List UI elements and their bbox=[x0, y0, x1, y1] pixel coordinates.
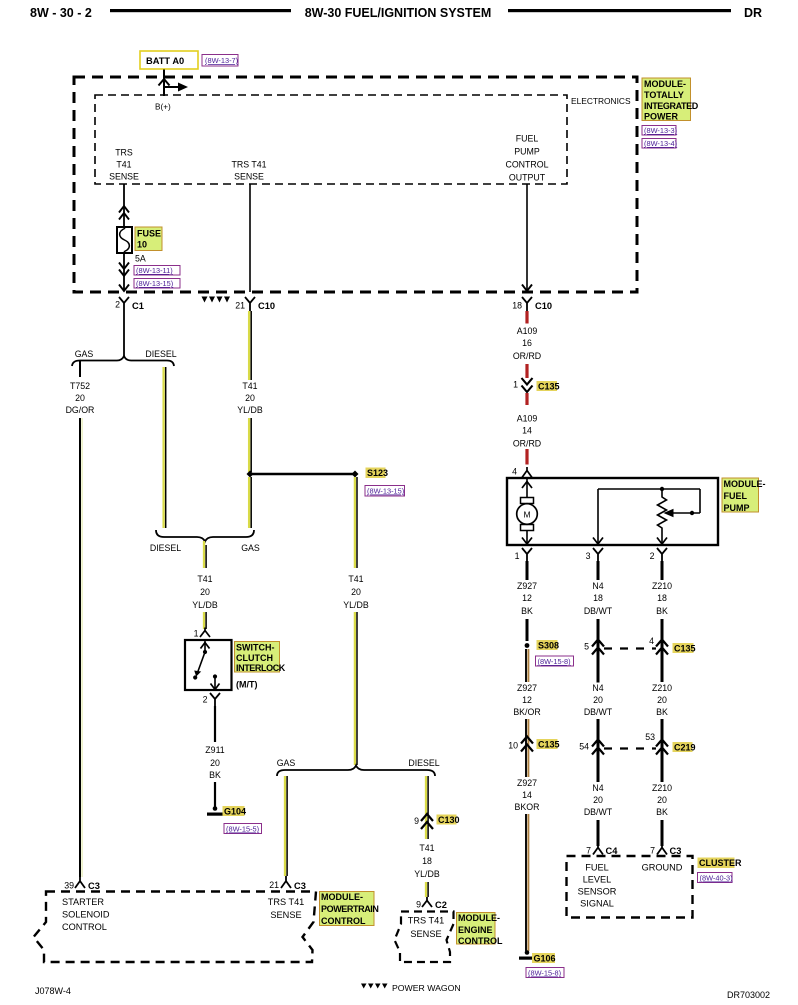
pump motor feed with arrow up bbox=[526, 478, 528, 498]
svg-text:DIESEL: DIESEL bbox=[145, 349, 176, 359]
header rule left bbox=[110, 9, 291, 12]
svg-text:C10: C10 bbox=[258, 301, 275, 311]
svg-text:DIESEL: DIESEL bbox=[150, 543, 181, 553]
wire B(+) from BATT A0 into TIPM bbox=[163, 70, 165, 97]
svg-text:1: 1 bbox=[515, 551, 520, 561]
wire Z927 12 BK/OR bbox=[525, 649, 527, 682]
link 8W-13-3 bbox=[642, 126, 676, 136]
branch arrow right on B(+) wire bbox=[164, 86, 178, 88]
svg-text:CLUSTER: CLUSTER bbox=[699, 858, 742, 868]
svg-text:20: 20 bbox=[351, 587, 361, 597]
svg-text:(8W-13-11): (8W-13-11) bbox=[136, 266, 173, 275]
svg-text:4: 4 bbox=[512, 467, 517, 477]
TIPM electronics inner dashed box bbox=[95, 95, 567, 184]
svg-text:Z911: Z911 bbox=[205, 745, 225, 755]
wire T752 DG/OR long run bbox=[79, 418, 81, 877]
svg-text:TRS T41: TRS T41 bbox=[408, 916, 445, 926]
svg-text:T41: T41 bbox=[116, 160, 131, 170]
wire splice jumper bbox=[250, 473, 355, 475]
wire A109 OR/RD from C10 bbox=[525, 311, 528, 324]
svg-text:CONTROL: CONTROL bbox=[321, 916, 366, 926]
svg-text:(8W-13-7): (8W-13-7) bbox=[205, 56, 238, 65]
wire below fuse bbox=[123, 253, 125, 291]
svg-text:A109: A109 bbox=[517, 414, 538, 424]
switch clutch interlock box bbox=[185, 640, 232, 690]
motor M bbox=[521, 498, 534, 504]
svg-text:10: 10 bbox=[137, 240, 147, 250]
off-page chevrons down bbox=[119, 263, 129, 277]
svg-text:Z927: Z927 bbox=[517, 778, 537, 788]
svg-text:C1: C1 bbox=[132, 301, 144, 311]
svg-text:12: 12 bbox=[522, 593, 532, 603]
label box MODULE-POWERTRAIN CONTROL bbox=[320, 892, 375, 926]
svg-text:DR: DR bbox=[744, 6, 762, 20]
module totally integrated power outer dashed box bbox=[74, 77, 637, 292]
svg-text:18: 18 bbox=[422, 856, 432, 866]
svg-text:G104: G104 bbox=[224, 807, 246, 817]
label box MODULE-FUEL PUMP bbox=[722, 478, 759, 512]
wire Z927 14 BKOR bbox=[525, 752, 527, 777]
svg-text:MODULE-: MODULE- bbox=[321, 892, 363, 902]
svg-text:(8W-13-4): (8W-13-4) bbox=[644, 139, 677, 148]
svg-text:21: 21 bbox=[269, 880, 279, 890]
svg-text:BKOR: BKOR bbox=[515, 802, 540, 812]
svg-text:C135: C135 bbox=[674, 644, 696, 654]
svg-text:(8W-13-15): (8W-13-15) bbox=[367, 487, 404, 496]
svg-text:Z210: Z210 bbox=[652, 783, 672, 793]
svg-text:SWITCH-: SWITCH- bbox=[236, 643, 275, 653]
connector dashes bbox=[604, 647, 656, 649]
header rule right bbox=[508, 9, 731, 12]
wire T41 into clutch switch bbox=[203, 612, 205, 629]
svg-text:C135: C135 bbox=[538, 740, 560, 750]
svg-text:ELECTRONICS: ELECTRONICS bbox=[571, 96, 631, 106]
svg-text:14: 14 bbox=[522, 426, 532, 436]
svg-text:1: 1 bbox=[194, 629, 199, 639]
wire stub T752 bbox=[79, 361, 81, 377]
svg-text:DB/WT: DB/WT bbox=[584, 707, 613, 717]
svg-text:FUEL: FUEL bbox=[516, 134, 539, 144]
wire TRS T41 sense inside TIPM bbox=[123, 184, 125, 227]
svg-text:20: 20 bbox=[245, 393, 255, 403]
svg-text:DR703002: DR703002 bbox=[727, 990, 770, 1000]
wire from C1 to gas/diesel split bbox=[123, 311, 125, 356]
wire T41 from C10 (yellow/black) bbox=[248, 311, 250, 380]
top link of sender network bbox=[598, 488, 700, 490]
svg-text:N4: N4 bbox=[592, 783, 603, 793]
svg-text:BK: BK bbox=[209, 770, 221, 780]
svg-text:C2: C2 bbox=[435, 900, 447, 910]
wire DIESEL branch T41 (yellow/black) bbox=[162, 367, 164, 528]
svg-text:OUTPUT: OUTPUT bbox=[509, 173, 546, 183]
wire T41 to gas/diesel split bbox=[354, 612, 356, 765]
label box SWITCH-CLUTCH INTERLOCK bbox=[235, 642, 280, 673]
svg-text:PUMP: PUMP bbox=[724, 503, 750, 513]
svg-text:DB/WT: DB/WT bbox=[584, 606, 613, 616]
connector dashes bbox=[604, 747, 656, 749]
gas/diesel split brace bbox=[72, 356, 174, 366]
wire T41 merged (yellow/black) bbox=[203, 541, 205, 568]
splice S308 bbox=[525, 643, 530, 648]
svg-text:39: 39 bbox=[64, 881, 74, 891]
svg-text:C130: C130 bbox=[438, 815, 460, 825]
label S123 bbox=[366, 468, 386, 479]
svg-text:YL/DB: YL/DB bbox=[414, 869, 440, 879]
svg-text:DIESEL: DIESEL bbox=[408, 758, 439, 768]
label box MODULE-TOTALLY INTEGRATED POWER bbox=[642, 78, 691, 121]
svg-text:OR/RD: OR/RD bbox=[513, 439, 541, 449]
svg-text:BK/OR: BK/OR bbox=[513, 707, 540, 717]
svg-text:INTEGRATED: INTEGRATED bbox=[644, 101, 699, 111]
svg-text:Z927: Z927 bbox=[517, 581, 537, 591]
ground G106 bbox=[525, 950, 530, 955]
wire Z927 12 BK bbox=[526, 561, 529, 580]
svg-text:ENGINE: ENGINE bbox=[458, 925, 493, 935]
wire A109 to C135 bbox=[525, 364, 528, 378]
svg-text:T752: T752 bbox=[70, 381, 90, 391]
svg-text:TRS T41: TRS T41 bbox=[231, 160, 266, 170]
svg-text:CONTROL: CONTROL bbox=[505, 160, 548, 170]
wire Z911 to ground bbox=[214, 782, 216, 807]
svg-text:20: 20 bbox=[200, 587, 210, 597]
svg-text:MODULE-: MODULE- bbox=[724, 479, 766, 489]
link 8W-13-15 bbox=[134, 279, 180, 289]
junction dot bbox=[660, 487, 664, 491]
svg-text:J078W-4: J078W-4 bbox=[35, 986, 71, 996]
switch pivot dot bbox=[203, 650, 207, 654]
arrowhead down at TIPM exit right bbox=[522, 285, 532, 292]
wire Z210 18 BK bbox=[661, 561, 664, 580]
svg-text:OR/RD: OR/RD bbox=[513, 351, 541, 361]
wire Z911 bbox=[214, 706, 216, 742]
svg-text:18: 18 bbox=[657, 593, 667, 603]
svg-text:T41: T41 bbox=[348, 574, 363, 584]
svg-text:FUEL: FUEL bbox=[724, 491, 748, 501]
svg-text:20: 20 bbox=[593, 695, 603, 705]
svg-text:T41: T41 bbox=[197, 574, 212, 584]
svg-text:10: 10 bbox=[508, 741, 518, 751]
wire GAS branch from S123 down bbox=[248, 477, 250, 528]
svg-text:20: 20 bbox=[210, 758, 220, 768]
svg-text:S123: S123 bbox=[367, 468, 388, 478]
svg-text:20: 20 bbox=[657, 795, 667, 805]
splice S123 junction dot right bbox=[352, 471, 359, 478]
wire fuel pump control output inside TIPM bbox=[526, 184, 528, 292]
svg-text:21: 21 bbox=[235, 301, 245, 311]
svg-text:POWER: POWER bbox=[644, 112, 679, 122]
svg-text:PUMP: PUMP bbox=[514, 147, 540, 157]
module fuel pump box bbox=[507, 478, 718, 545]
svg-text:BK: BK bbox=[656, 606, 668, 616]
svg-text:MODULE-: MODULE- bbox=[644, 79, 686, 89]
svg-text:20: 20 bbox=[75, 393, 85, 403]
merge brace diesel/gas bbox=[156, 530, 254, 542]
svg-text:FUEL: FUEL bbox=[585, 863, 609, 873]
svg-text:18: 18 bbox=[512, 301, 522, 311]
power wagon triangles bbox=[202, 297, 208, 303]
power wagon triangles bottom bbox=[361, 984, 367, 989]
svg-text:SENSE: SENSE bbox=[109, 172, 139, 182]
svg-text:Z210: Z210 bbox=[652, 683, 672, 693]
module powertrain control dashed box bbox=[34, 892, 317, 963]
cluster dashed box bbox=[567, 856, 693, 918]
link 8W-15-8 at S308 bbox=[536, 656, 574, 666]
svg-text:GAS: GAS bbox=[277, 758, 296, 768]
svg-text:20: 20 bbox=[593, 795, 603, 805]
svg-text:GROUND: GROUND bbox=[642, 863, 683, 873]
switch blade bbox=[197, 652, 205, 674]
svg-text:LEVEL: LEVEL bbox=[583, 875, 612, 885]
svg-text:(8W-40-3): (8W-40-3) bbox=[700, 874, 733, 883]
svg-text:S308: S308 bbox=[538, 641, 559, 651]
level sensor signal line with arrow down bbox=[597, 489, 599, 545]
svg-text:C4: C4 bbox=[606, 846, 619, 856]
svg-text:SIGNAL: SIGNAL bbox=[580, 899, 614, 909]
svg-text:2: 2 bbox=[203, 695, 208, 705]
link 8W-13-11 bbox=[134, 266, 180, 276]
svg-text:(8W-13-3): (8W-13-3) bbox=[644, 126, 677, 135]
wiper branch bbox=[699, 489, 701, 513]
svg-text:N4: N4 bbox=[592, 683, 603, 693]
svg-text:7: 7 bbox=[586, 846, 591, 856]
wire N4 18 DB/WT bbox=[597, 561, 600, 580]
svg-text:GAS: GAS bbox=[241, 543, 260, 553]
svg-text:TRS T41: TRS T41 bbox=[268, 897, 305, 907]
svg-text:12: 12 bbox=[522, 695, 532, 705]
motor return with arrow down bbox=[526, 531, 528, 546]
svg-text:Z927: Z927 bbox=[517, 683, 537, 693]
wire A109 to fuel pump bbox=[525, 449, 528, 465]
svg-text:CLUTCH: CLUTCH bbox=[236, 653, 273, 663]
svg-text:5: 5 bbox=[584, 642, 589, 652]
svg-text:C3: C3 bbox=[294, 881, 306, 891]
link 8W-15-5 bbox=[224, 824, 262, 834]
svg-text:Z210: Z210 bbox=[652, 581, 672, 591]
junction dot wiper bbox=[690, 511, 694, 515]
svg-text:9: 9 bbox=[414, 816, 419, 826]
svg-text:GAS: GAS bbox=[75, 349, 94, 359]
svg-text:(8W-15-8): (8W-15-8) bbox=[528, 969, 561, 978]
svg-text:18: 18 bbox=[593, 593, 603, 603]
off-page chevrons up bbox=[119, 206, 129, 220]
svg-text:20: 20 bbox=[657, 695, 667, 705]
svg-text:DB/WT: DB/WT bbox=[584, 807, 613, 817]
svg-text:7: 7 bbox=[650, 846, 655, 856]
svg-text:G106: G106 bbox=[534, 954, 556, 964]
wire A109 below C135 bbox=[525, 393, 528, 405]
svg-text:(8W-15-8): (8W-15-8) bbox=[538, 657, 571, 666]
module engine control dashed box bbox=[395, 912, 454, 963]
switch blade end dot bbox=[193, 675, 197, 679]
link 8W-13-7 bbox=[202, 55, 238, 67]
svg-text:SENSE: SENSE bbox=[270, 910, 301, 920]
svg-text:DG/OR: DG/OR bbox=[66, 405, 95, 415]
svg-text:(8W-15-5): (8W-15-5) bbox=[226, 825, 259, 834]
svg-text:A109: A109 bbox=[517, 326, 538, 336]
svg-text:8W-30 FUEL/IGNITION SYSTEM: 8W-30 FUEL/IGNITION SYSTEM bbox=[305, 6, 492, 20]
svg-text:C10: C10 bbox=[535, 301, 552, 311]
svg-text:SOLENOID: SOLENOID bbox=[62, 910, 110, 920]
arrowhead down at TIPM exit bbox=[119, 285, 129, 292]
svg-text:1: 1 bbox=[513, 380, 518, 390]
wire GAS branch to PCM (yellow/black) bbox=[284, 776, 286, 876]
splice S123 junction dot left bbox=[247, 471, 254, 478]
link 8W-15-8 at G106 bbox=[526, 968, 564, 978]
link 8W-13-4 bbox=[642, 139, 676, 149]
link 8W-13-15 at S123 bbox=[365, 486, 405, 497]
svg-text:54: 54 bbox=[579, 742, 589, 752]
svg-text:BK: BK bbox=[521, 606, 533, 616]
svg-text:8W - 30 - 2: 8W - 30 - 2 bbox=[30, 6, 92, 20]
wire TRS T41 sense mid inside TIPM bbox=[249, 184, 251, 292]
svg-text:C219: C219 bbox=[674, 743, 696, 753]
svg-text:INTERLOCK: INTERLOCK bbox=[236, 663, 286, 673]
svg-text:3: 3 bbox=[586, 551, 591, 561]
svg-text:CONTROL: CONTROL bbox=[62, 922, 107, 932]
svg-text:B(+): B(+) bbox=[155, 103, 171, 112]
svg-text:14: 14 bbox=[522, 790, 532, 800]
link 8W-40-3 bbox=[698, 873, 733, 883]
svg-text:T41: T41 bbox=[242, 381, 257, 391]
label CLUSTER bbox=[698, 858, 735, 869]
svg-text:POWER WAGON: POWER WAGON bbox=[392, 983, 461, 993]
svg-text:SENSE: SENSE bbox=[234, 172, 264, 182]
svg-text:C3: C3 bbox=[88, 881, 100, 891]
svg-text:CONTROL: CONTROL bbox=[458, 936, 503, 946]
fuse 10 body bbox=[117, 227, 132, 253]
sender resistor bbox=[658, 489, 667, 545]
svg-text:BK: BK bbox=[656, 807, 668, 817]
svg-text:M: M bbox=[523, 510, 530, 520]
svg-text:YL/DB: YL/DB bbox=[192, 600, 218, 610]
svg-text:SENSOR: SENSOR bbox=[578, 887, 617, 897]
wire DIESEL branch (yellow/black) bbox=[425, 776, 427, 839]
svg-text:STARTER: STARTER bbox=[62, 897, 104, 907]
svg-text:MODULE-: MODULE- bbox=[458, 913, 500, 923]
gas/diesel split brace bottom bbox=[277, 766, 435, 777]
svg-text:53: 53 bbox=[645, 732, 655, 742]
switch fixed contact bbox=[213, 674, 217, 678]
switch contact arrow up bbox=[204, 640, 206, 650]
svg-text:(8W-13-15): (8W-13-15) bbox=[136, 279, 173, 288]
svg-text:FUSE: FUSE bbox=[137, 229, 161, 239]
svg-text:YL/DB: YL/DB bbox=[343, 600, 369, 610]
svg-text:9: 9 bbox=[416, 900, 421, 910]
svg-text:T41: T41 bbox=[419, 843, 434, 853]
svg-text:BK: BK bbox=[656, 707, 668, 717]
wire T41 to splice S123 bbox=[248, 418, 250, 472]
ground G104 bbox=[213, 806, 218, 811]
svg-text:TOTALLY: TOTALLY bbox=[644, 90, 684, 100]
svg-text:BATT A0: BATT A0 bbox=[146, 56, 184, 66]
svg-text:C135: C135 bbox=[538, 382, 560, 392]
svg-text:SENSE: SENSE bbox=[410, 929, 441, 939]
svg-text:2: 2 bbox=[115, 300, 120, 310]
svg-text:C3: C3 bbox=[670, 846, 682, 856]
label FUSE 10 bbox=[135, 227, 162, 251]
svg-text:YL/DB: YL/DB bbox=[237, 405, 263, 415]
svg-text:4: 4 bbox=[649, 636, 654, 646]
arrowhead up on B(+) wire bbox=[159, 79, 170, 86]
svg-text:5A: 5A bbox=[135, 254, 146, 264]
wire T41 from S123 down (yellow/black) bbox=[354, 477, 356, 568]
svg-text:TRS: TRS bbox=[115, 148, 133, 158]
battery feed box BATT A0 bbox=[140, 51, 198, 69]
label box MODULE-ENGINE CONTROL bbox=[457, 913, 496, 945]
svg-text:POWERTRAIN: POWERTRAIN bbox=[321, 904, 379, 914]
svg-text:N4: N4 bbox=[592, 581, 603, 591]
svg-text:16: 16 bbox=[522, 338, 532, 348]
wire T41 into ECM bbox=[425, 882, 427, 897]
svg-text:(M/T): (M/T) bbox=[236, 680, 258, 690]
svg-text:2: 2 bbox=[650, 551, 655, 561]
